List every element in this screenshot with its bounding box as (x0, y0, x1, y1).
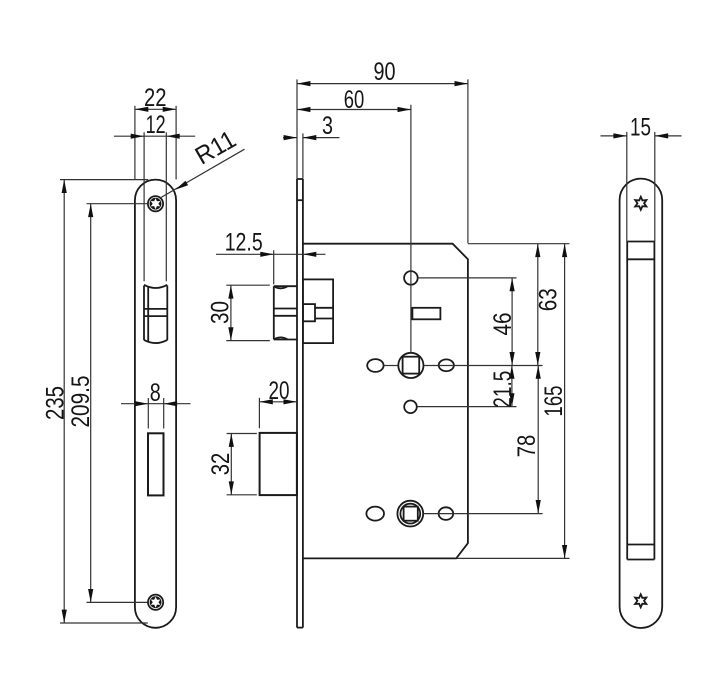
dimension 32 (207, 434, 257, 495)
dimension 209.5 (67, 204, 148, 603)
svg-text:63: 63 (534, 288, 562, 311)
follower circle (398, 353, 423, 378)
deadbolt cutout (front view) (148, 433, 164, 495)
strip bottom band (627, 544, 654, 546)
dimension 12.5 (216, 228, 326, 284)
dimension 46 (489, 278, 517, 366)
svg-text:46: 46 (489, 313, 517, 336)
dimension 235 (41, 180, 148, 623)
extension lines 8 (147, 398, 149, 429)
svg-text:90: 90 (374, 58, 396, 86)
deadbolt side view (260, 433, 297, 495)
torx screw top-left view (148, 196, 163, 211)
svg-text:3: 3 (322, 112, 333, 140)
extension lines 12 (143, 132, 145, 281)
follower square 8mm (403, 357, 420, 374)
svg-text:60: 60 (344, 86, 365, 114)
svg-text:30: 30 (207, 301, 235, 324)
torx star bottom-right view (635, 594, 646, 607)
back plate outline (620, 179, 663, 628)
inner strip right line (653, 242, 655, 560)
faceplate edge-on (297, 179, 303, 628)
cylinder hole (397, 501, 423, 527)
svg-text:32: 32 (207, 453, 235, 476)
dimension 60 (297, 86, 411, 353)
right-side extension lines (468, 243, 570, 245)
svg-text:235: 235 (41, 386, 69, 420)
svg-text:8: 8 (150, 379, 161, 407)
torx screw bottom-left view (148, 595, 163, 610)
inner strip left line (626, 242, 628, 560)
dimension 3 (283, 112, 340, 179)
dimension 8 (121, 379, 191, 407)
svg-text:15: 15 (630, 113, 651, 141)
svg-text:22: 22 (144, 84, 167, 112)
latch bolt side view (274, 286, 297, 339)
oval hole row2 left (366, 507, 384, 521)
strip top band (627, 241, 654, 243)
dimension 78 (513, 365, 541, 513)
faceplate front outline (135, 180, 176, 628)
latch tail (303, 304, 333, 321)
svg-text:12: 12 (146, 111, 166, 139)
torx star top-right view (635, 197, 646, 210)
radius callout R11 (160, 125, 244, 198)
svg-text:12.5: 12.5 (225, 228, 263, 256)
oval hole row2 right (439, 507, 454, 520)
svg-text:21.5: 21.5 (489, 371, 517, 408)
latch housing inside case (303, 279, 333, 343)
dimension 22 (135, 84, 176, 112)
dimension 165 (540, 244, 568, 559)
svg-text:165: 165 (540, 386, 568, 417)
oval hole row1 right (439, 359, 454, 371)
dimension 12 (114, 111, 195, 139)
dimension 30 (207, 285, 270, 340)
extension lines 22 (134, 106, 136, 180)
svg-text:20: 20 (269, 377, 290, 405)
svg-text:209.5: 209.5 (67, 376, 95, 428)
dimension 21.5 (489, 365, 517, 407)
dimension 90 (297, 58, 468, 243)
oval hole row1 left (367, 359, 383, 372)
top hole (404, 271, 418, 285)
dimension 63 (534, 244, 562, 366)
slot rectangle (412, 308, 440, 320)
dimension 20 (259, 377, 297, 428)
svg-text:78: 78 (513, 435, 541, 458)
latch cutout (front view) (144, 285, 167, 343)
dimension 15 (601, 113, 682, 241)
small hole (404, 401, 417, 414)
lock case outline (303, 244, 468, 559)
